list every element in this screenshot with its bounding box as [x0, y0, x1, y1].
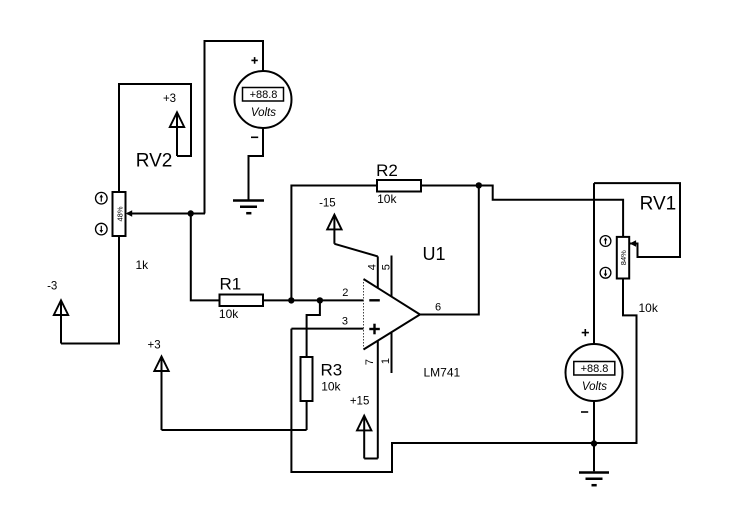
svg-text:+3: +3: [163, 93, 176, 105]
svg-text:R1: R1: [220, 275, 242, 294]
voltmeter V2: [566, 344, 623, 401]
wire +3 to R3 bottom: [162, 429, 307, 431]
junction dot ground node: [591, 440, 597, 446]
RV1 up annotation: [600, 236, 611, 247]
svg-text:10k: 10k: [377, 192, 397, 206]
svg-text:7: 7: [364, 359, 376, 365]
wire jog pin2 node down to R3 top: [307, 300, 320, 357]
svg-text:10k: 10k: [321, 380, 341, 394]
wire V2 bottom to ground rail: [593, 401, 595, 471]
junction dot output node: [476, 182, 482, 188]
svg-text:1k: 1k: [136, 258, 150, 272]
svg-text:-15: -15: [319, 198, 336, 210]
svg-text:+15: +15: [350, 396, 370, 408]
wire RV1 loop (top and right): [594, 183, 680, 257]
svg-text:2: 2: [342, 287, 348, 299]
svg-text:U1: U1: [423, 244, 446, 264]
potentiometer RV1 body: [617, 237, 629, 279]
svg-text:6: 6: [435, 302, 441, 314]
wire RV2 bottom to -3: [61, 236, 119, 344]
pin 6 output wire: [420, 186, 479, 315]
svg-text:R2: R2: [376, 161, 398, 180]
svg-text:LM741: LM741: [424, 366, 461, 380]
svg-text:+3: +3: [148, 340, 161, 352]
wire +3 arrow to RV2 top: [119, 84, 191, 192]
V1 plus terminal label: [251, 57, 257, 64]
-15 power arrow: [327, 215, 341, 244]
wire pin3 to bottom rail to RV1 bottom: [291, 279, 636, 473]
resistor R3: [301, 357, 313, 401]
+3 power arrow (bottom): [154, 356, 168, 430]
op-amp U1: [364, 279, 421, 350]
wire R3 bottom: [306, 401, 308, 430]
voltmeter V1: [235, 71, 292, 128]
svg-text:84%: 84%: [619, 250, 628, 265]
+15 power arrow: [357, 416, 371, 459]
resistor R2: [377, 180, 421, 192]
pin 5 stub: [391, 256, 393, 297]
ground (bottom-right): [579, 473, 609, 486]
+3 power arrow (top): [170, 112, 184, 156]
V2 plus terminal label: [582, 329, 589, 336]
wire wiper node down to R1: [191, 214, 220, 301]
svg-text:-3: -3: [47, 281, 57, 293]
wire -15 diagonal to pin 4: [334, 244, 377, 257]
pin 1 stub: [391, 332, 393, 373]
svg-text:3: 3: [342, 316, 348, 328]
RV2 up annotation: [96, 192, 108, 204]
RV1 down annotation: [600, 267, 611, 278]
wire top-left horizontal to voltmeter: [205, 41, 264, 214]
junction dot R1/R2 node: [288, 297, 294, 303]
svg-text:48%: 48%: [116, 206, 125, 221]
ground (top-left): [233, 201, 264, 214]
svg-text:R3: R3: [321, 360, 343, 379]
svg-text:Volts: Volts: [251, 107, 276, 119]
wire op-amp pin 3: [291, 328, 363, 330]
svg-text:5: 5: [381, 264, 393, 270]
svg-text:RV2: RV2: [136, 150, 173, 171]
svg-text:4: 4: [367, 264, 379, 270]
svg-text:10k: 10k: [639, 301, 659, 315]
wire +15 to pin 7: [364, 458, 378, 460]
wire feedback left: node up to R2: [291, 186, 377, 301]
svg-text:RV1: RV1: [640, 194, 677, 215]
voltmeter V2 top wire: [593, 183, 595, 344]
junction dot pin2/R3 jog node: [317, 297, 323, 303]
RV2 wiper arrow and wire to node: [126, 210, 205, 217]
-3 power arrow: [54, 300, 68, 343]
svg-text:+88.8: +88.8: [581, 363, 609, 375]
wire R1 to op-amp pin 2: [263, 299, 364, 301]
svg-text:1: 1: [380, 358, 392, 364]
resistor R1: [220, 295, 264, 307]
potentiometer RV2 body: [113, 192, 126, 236]
RV1 wiper arrow: [630, 240, 636, 247]
V2 minus terminal label: [581, 411, 588, 413]
wire R2 right to output node and to RV1: [421, 186, 623, 237]
wire V1 bottom to ground: [249, 128, 264, 200]
svg-text:10k: 10k: [219, 307, 239, 321]
svg-text:+88.8: +88.8: [250, 89, 278, 101]
V1 minus terminal label: [251, 136, 258, 138]
pin 7 stub down to +15: [377, 341, 379, 459]
RV2 down annotation: [96, 223, 108, 235]
pin 4 stub: [377, 256, 379, 287]
junction dot wiper node: [188, 210, 194, 216]
svg-text:Volts: Volts: [582, 381, 607, 393]
